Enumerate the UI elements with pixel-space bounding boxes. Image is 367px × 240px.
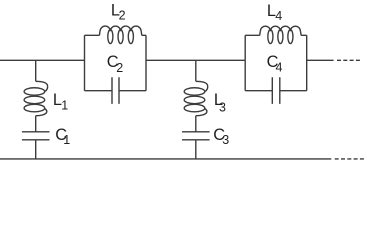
inductor L4 bbox=[260, 26, 301, 43]
inductor L2 bbox=[100, 26, 142, 44]
wire C1 to bottom rail bbox=[35, 140, 37, 159]
wire branch 1 drop from top rail bbox=[35, 60, 37, 81]
svg-text:4: 4 bbox=[276, 61, 283, 75]
svg-text:1: 1 bbox=[61, 98, 68, 112]
inductor L3 bbox=[184, 81, 208, 115]
svg-text:2: 2 bbox=[119, 8, 126, 22]
wire C3 to bottom rail bbox=[195, 140, 197, 159]
wire bottom rail dashed continuation bbox=[335, 158, 364, 160]
inductor L1 bbox=[24, 81, 48, 115]
wire L3 to C3 bbox=[195, 116, 197, 132]
capacitor C2 bbox=[112, 77, 119, 104]
resonator box 2 outline bbox=[245, 35, 307, 90]
capacitor C4 bbox=[272, 77, 280, 104]
wire L1 to C1 bbox=[35, 116, 37, 132]
wire branch 2 drop from top rail bbox=[195, 60, 197, 81]
svg-text:3: 3 bbox=[222, 133, 229, 147]
capacitor C1 bbox=[22, 132, 50, 140]
resonator box 1 outline bbox=[85, 35, 147, 90]
wire top rail dashed continuation bbox=[337, 59, 360, 61]
wire top rail right segment bbox=[307, 59, 334, 61]
svg-text:2: 2 bbox=[116, 61, 123, 75]
svg-text:1: 1 bbox=[63, 133, 70, 147]
wire bottom rail bbox=[0, 158, 331, 160]
wire top rail middle segment bbox=[146, 59, 245, 61]
svg-text:4: 4 bbox=[275, 9, 282, 23]
wire top rail left segment bbox=[0, 59, 85, 61]
capacitor C3 bbox=[182, 132, 210, 140]
svg-text:3: 3 bbox=[219, 101, 226, 115]
